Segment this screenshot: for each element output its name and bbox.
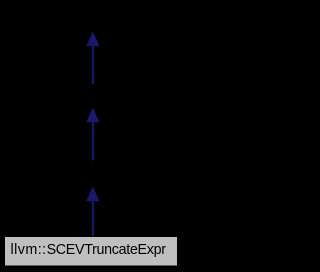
arrow A2 (middle inheritance arrow) — [86, 108, 99, 161]
inheritance diagram: llvm::SCEVTruncateExpr — [0, 0, 184, 272]
arrow A1 (top inheritance arrow) — [86, 31, 99, 84]
node box llvm::SCEVTruncateExpr — [5, 237, 178, 267]
arrow A3 (bottom inheritance arrow) — [86, 187, 99, 237]
svg-text:llvm::SCEVTruncateExpr: llvm::SCEVTruncateExpr — [11, 242, 167, 258]
